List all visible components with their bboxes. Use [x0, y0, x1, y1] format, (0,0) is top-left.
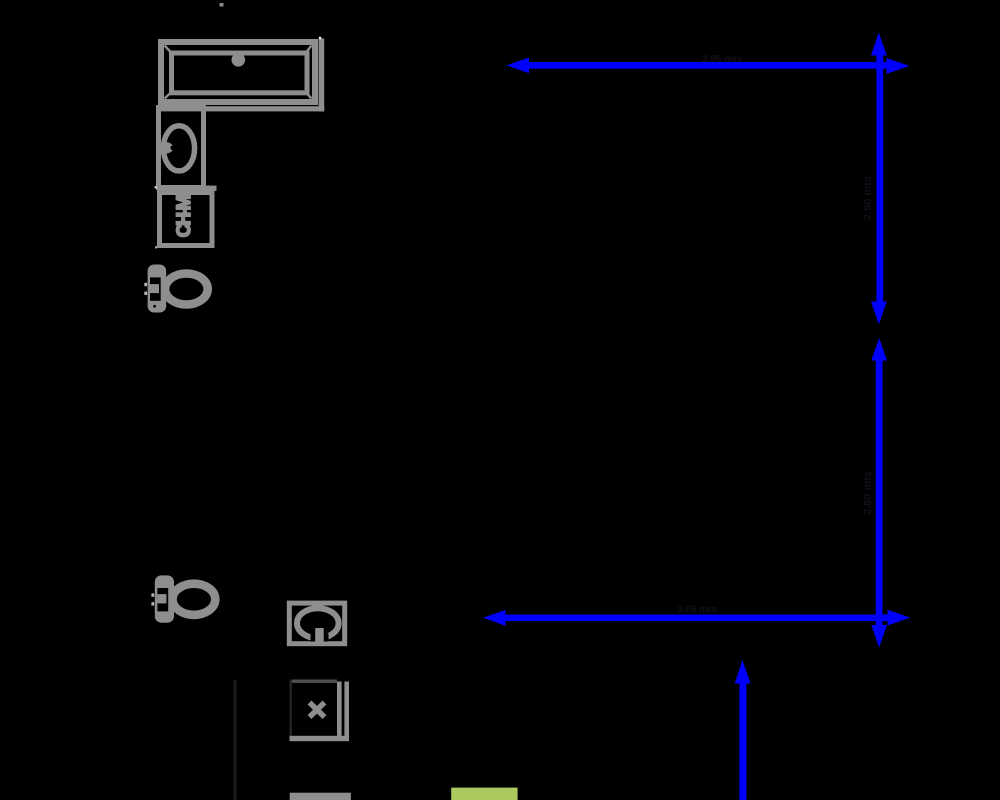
green mat	[451, 788, 517, 800]
dark partition line	[233, 680, 236, 800]
counter sink tap gap	[311, 634, 329, 642]
counter sink box	[289, 603, 344, 644]
toilet 2 supply ticks	[151, 593, 154, 596]
bathtub inner rim	[172, 53, 308, 93]
toilet 2 flush button	[157, 594, 166, 603]
toilet 1 supply ticks	[144, 283, 147, 286]
toilet 2 tank	[155, 575, 174, 622]
vanity tap	[158, 142, 173, 154]
counter sink basin	[297, 608, 339, 638]
counter sink tap	[315, 628, 324, 642]
vanity basin	[163, 126, 194, 171]
wall right of bathtub	[319, 39, 325, 112]
dimension arrow vertical bottom	[735, 660, 751, 800]
toilet 1 tank	[148, 265, 167, 313]
bathtub outer rim	[161, 42, 315, 102]
speck top	[220, 3, 224, 7]
appliance box bottom edge	[290, 736, 350, 741]
toilet 1 tank dot	[153, 305, 156, 308]
vanity sink cabinet	[159, 108, 204, 188]
dimension arrow vertical lower	[871, 338, 887, 648]
toilet 2 bowl	[173, 584, 216, 615]
bathtub faucet	[232, 53, 246, 67]
appliance door line 2	[344, 682, 349, 742]
svg-text:2.80 mts: 2.80 mts	[862, 471, 874, 515]
dimension arrow horizontal top	[507, 58, 910, 74]
appliance box left edge	[290, 680, 292, 742]
dimension arrow horizontal bottom	[483, 610, 910, 626]
bathtub corner bevels	[165, 46, 312, 99]
vanity bottom ledge	[205, 186, 217, 191]
dimension arrow vertical upper	[871, 33, 887, 325]
wall speck	[319, 37, 322, 40]
appliance door line 1	[337, 682, 342, 742]
toilet 1 bowl	[165, 274, 208, 305]
vanity corner specks	[155, 186, 157, 188]
svg-text:3.05 mts: 3.05 mts	[677, 605, 717, 616]
appliance box top edge	[290, 680, 338, 683]
svg-text:2.90 mts: 2.90 mts	[862, 176, 874, 220]
toilet 1 flush button	[150, 284, 159, 293]
wall below bathtub	[156, 106, 324, 111]
toilet 1 tank window	[150, 277, 161, 300]
toilet 2 tank window	[157, 588, 168, 611]
cabinet CH-M box	[160, 193, 213, 246]
lower fixture top edge	[290, 793, 351, 800]
svg-text:CH-M: CH-M	[174, 195, 195, 237]
appliance X mark	[310, 703, 325, 718]
